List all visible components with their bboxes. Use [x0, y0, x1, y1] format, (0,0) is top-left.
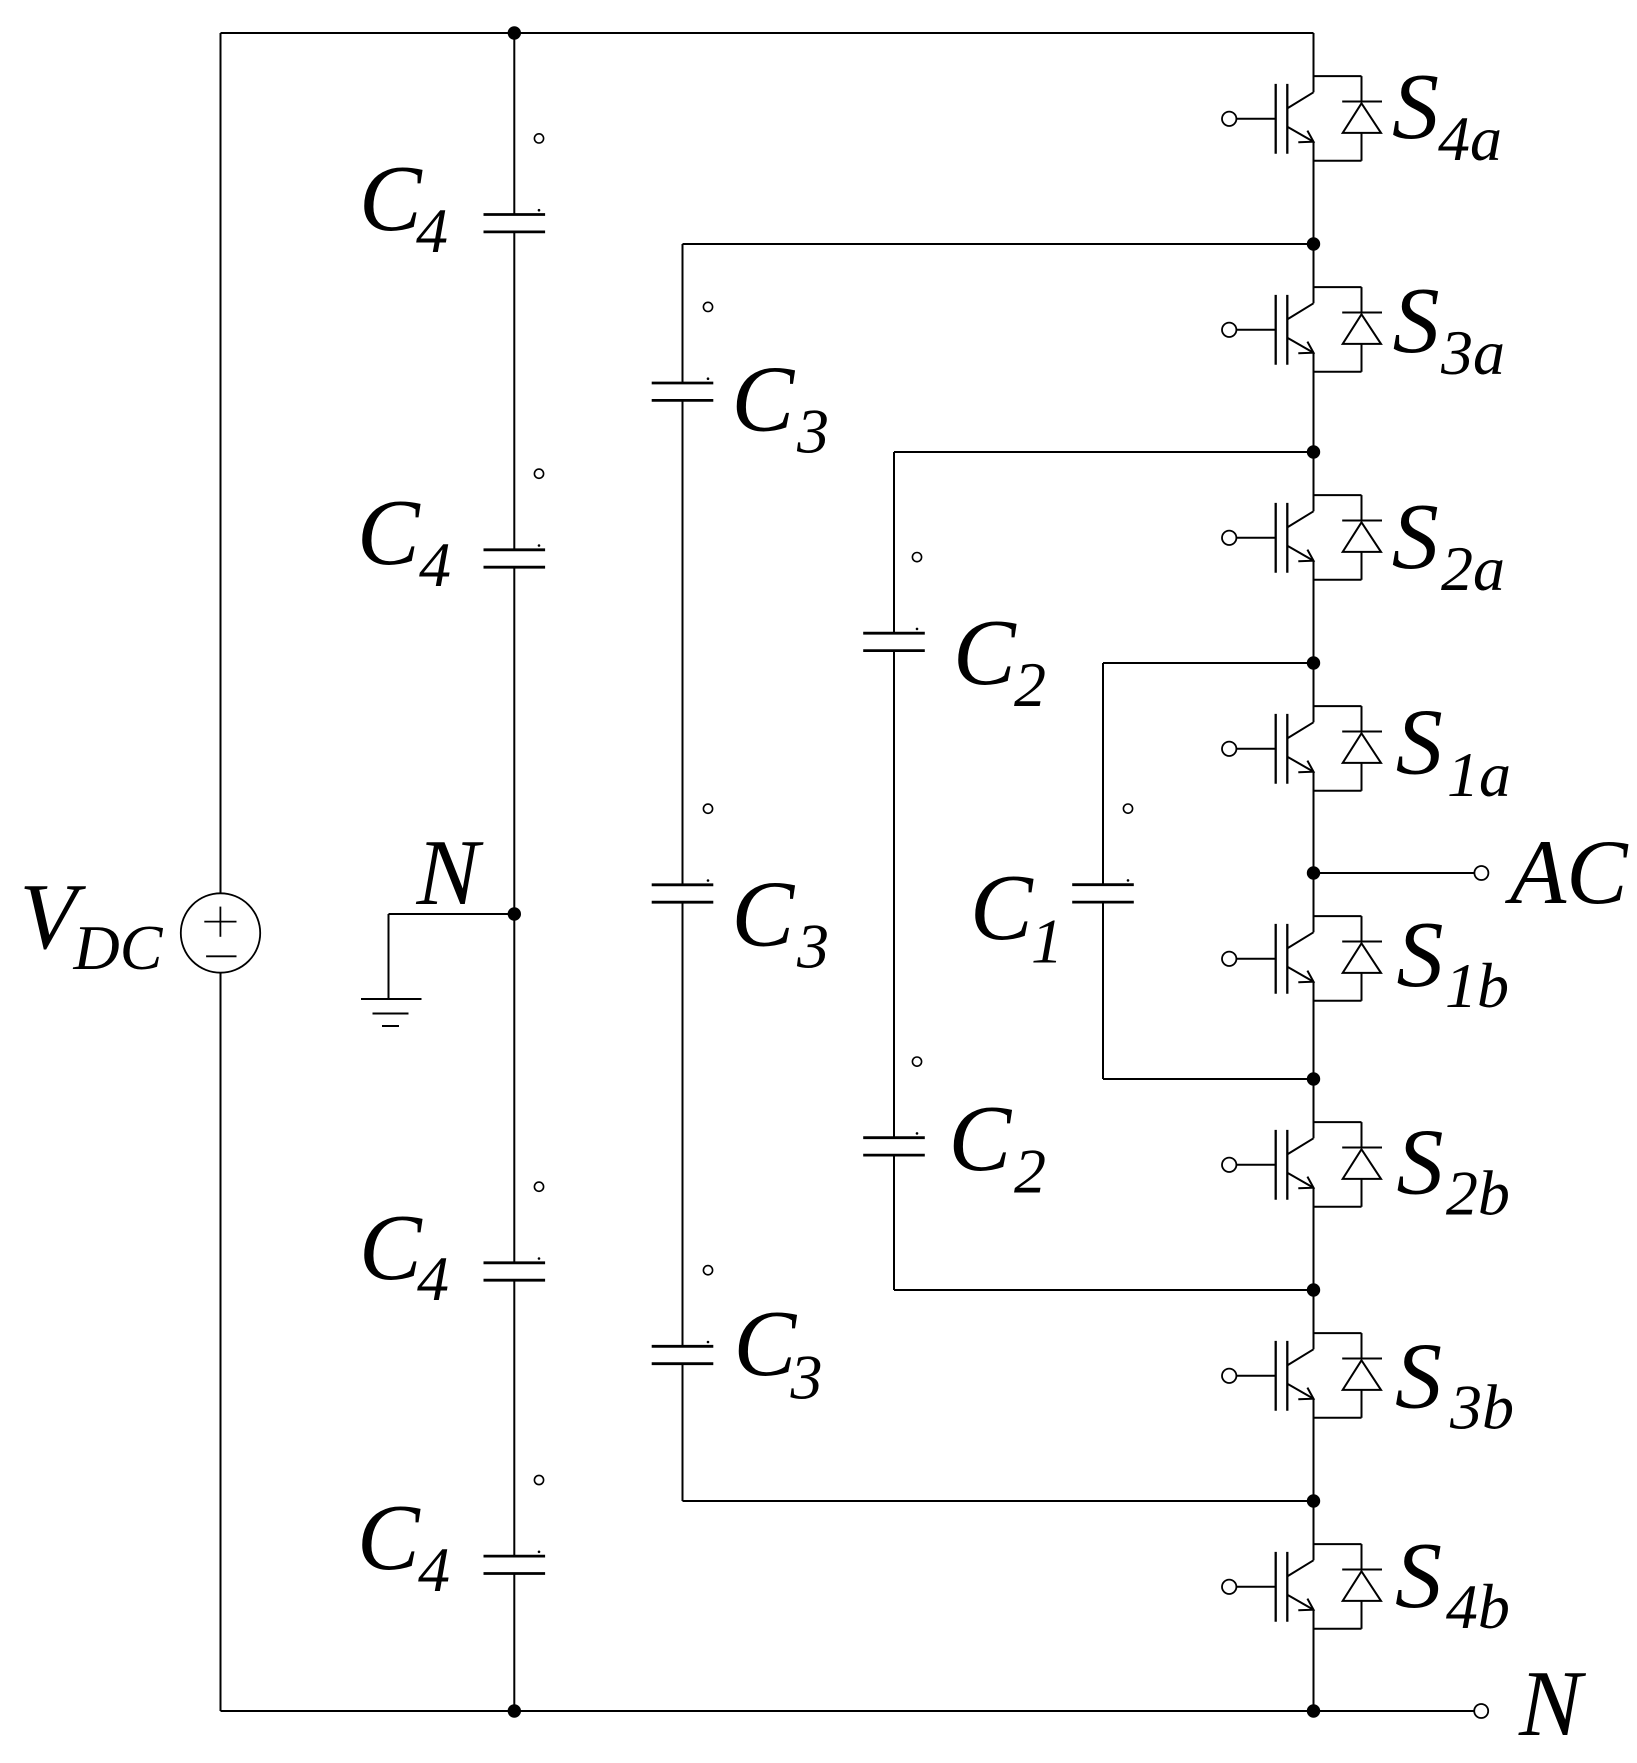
svg-text:3: 3: [790, 1342, 823, 1413]
wire top bus (VDC+ to S4a collector): [221, 32, 1314, 34]
capacitor C2 (bottom): [863, 1138, 925, 1155]
label C3 (top): [732, 348, 830, 467]
svg-text:2: 2: [1014, 649, 1046, 720]
svg-text:1b: 1b: [1445, 950, 1509, 1021]
wire node N branch: [389, 914, 515, 999]
label S4a: [1392, 55, 1502, 174]
svg-text:1a: 1a: [1447, 739, 1511, 810]
capacitor C3 (bottom): [652, 1346, 714, 1363]
label S1b: [1397, 903, 1510, 1021]
diode D2b (antiparallel of S2b): [1314, 1122, 1383, 1207]
svg-text:2: 2: [1014, 1136, 1046, 1207]
wire left rail upper (top bus to VDC+): [220, 33, 222, 893]
svg-text:3: 3: [796, 911, 829, 982]
svg-text:S: S: [1395, 1324, 1442, 1428]
label VDC: [20, 865, 164, 983]
capacitor C3 (middle): [652, 885, 714, 902]
wire C1 bus vertical: [1102, 663, 1104, 1079]
junction dot S2b-S3b / C2 bottom: [1307, 1283, 1320, 1296]
wire C3 bottom connect: [683, 1500, 1314, 1502]
label S3a: [1393, 269, 1505, 388]
capacitor C3 (top): [652, 383, 714, 400]
svg-text:4: 4: [416, 195, 448, 266]
wire C1 bottom connect: [1103, 1078, 1314, 1080]
junction dot S3b-S4b / C3 bottom: [1307, 1494, 1320, 1507]
label S1a: [1396, 690, 1511, 810]
svg-text:C: C: [734, 1292, 798, 1396]
svg-text:3: 3: [796, 396, 829, 467]
diode D3a (antiparallel of S3a): [1314, 287, 1383, 372]
svg-text:4: 4: [418, 1534, 450, 1605]
svg-text:N: N: [1518, 1652, 1587, 1756]
label C4 (third): [359, 1196, 449, 1314]
wire C1 top connect: [1103, 662, 1314, 664]
svg-text:C: C: [732, 348, 796, 452]
transistor S4b (IGBT): [1222, 1501, 1314, 1711]
label C4 (top): [359, 147, 448, 266]
svg-text:N: N: [416, 821, 485, 925]
svg-text:S: S: [1397, 903, 1444, 1007]
transistor S1a (IGBT): [1222, 663, 1314, 873]
svg-text:4: 4: [417, 1243, 449, 1314]
svg-text:2a: 2a: [1441, 533, 1505, 604]
svg-text:C: C: [359, 1196, 423, 1300]
svg-text:4b: 4b: [1446, 1571, 1510, 1642]
junction dot AC node: [1307, 866, 1320, 879]
diode D1a (antiparallel of S1a): [1314, 706, 1383, 791]
svg-text:S: S: [1392, 55, 1439, 159]
wire C4 bus vertical: [513, 33, 515, 1711]
svg-text:C: C: [357, 1486, 421, 1590]
voltage source VDC: [181, 893, 260, 972]
svg-text:S: S: [1396, 690, 1443, 794]
terminal N (open circle): [1474, 1704, 1488, 1718]
svg-text:C: C: [953, 601, 1017, 705]
label S2a: [1392, 485, 1505, 604]
capacitor C4 (bottom): [484, 1556, 546, 1573]
svg-text:2b: 2b: [1446, 1158, 1510, 1229]
label AC: [1504, 821, 1629, 923]
svg-text:C: C: [970, 856, 1034, 960]
diode D2a (antiparallel of S2a): [1314, 495, 1383, 580]
capacitor C2 (top): [863, 633, 925, 650]
wire C3 bus vertical: [682, 244, 684, 1501]
svg-text:3b: 3b: [1449, 1372, 1514, 1443]
transistor S3a (IGBT): [1222, 244, 1314, 452]
svg-text:1: 1: [1031, 906, 1063, 977]
wire C2 bottom connect: [894, 1289, 1314, 1291]
capacitor C4 (second): [484, 550, 546, 567]
junction dot bottom bus / C4: [508, 1704, 521, 1717]
junction dot S4a-S3a / C3 top: [1307, 237, 1320, 250]
svg-text:4a: 4a: [1438, 103, 1502, 174]
label C4 (second): [357, 481, 451, 600]
label C4 (bottom): [357, 1486, 450, 1605]
wire C3 top connect: [683, 243, 1314, 245]
junction dot S2a-S1a / C1 top: [1307, 656, 1320, 669]
svg-text:S: S: [1397, 1110, 1444, 1214]
label N (neutral, top): [416, 821, 485, 925]
svg-text:S: S: [1393, 269, 1440, 373]
capacitor C1: [1072, 885, 1134, 902]
label C1: [970, 856, 1063, 977]
svg-text:DC: DC: [73, 912, 164, 983]
transistor S3b (IGBT): [1222, 1290, 1314, 1501]
diode D4a (antiparallel of S4a): [1314, 76, 1383, 161]
svg-text:3a: 3a: [1440, 317, 1505, 388]
capacitor sense marks (small circles and dots): [534, 134, 1132, 1553]
transistor S4a (IGBT): [1222, 33, 1314, 244]
junction dot S1b-S2b / C1 bottom: [1307, 1072, 1320, 1085]
label S2b: [1397, 1110, 1510, 1228]
wire bottom bus (VDC- to N terminal): [221, 1710, 1475, 1712]
label S3b: [1395, 1324, 1514, 1442]
svg-text:S: S: [1395, 1524, 1442, 1628]
transistor S1b (IGBT): [1222, 873, 1314, 1079]
label C2 (top): [953, 601, 1046, 720]
label S4b: [1395, 1524, 1510, 1642]
svg-text:C: C: [732, 863, 796, 967]
label C3 (middle): [732, 863, 830, 982]
svg-text:C: C: [949, 1087, 1013, 1191]
label C2 (bottom): [949, 1087, 1047, 1207]
svg-text:4: 4: [419, 529, 451, 600]
wire C2 bus vertical: [893, 452, 895, 1290]
junction dot top bus / C4: [508, 26, 521, 39]
label N (bottom right): [1518, 1652, 1587, 1756]
wire C2 top connect: [894, 451, 1314, 453]
wire AC output: [1314, 872, 1475, 874]
svg-text:AC: AC: [1504, 821, 1629, 923]
junction dot bottom bus / N: [1307, 1704, 1320, 1717]
svg-text:C: C: [359, 147, 423, 251]
transistor S2a (IGBT): [1222, 452, 1314, 663]
diode D1b (antiparallel of S1b): [1314, 916, 1383, 1001]
diode D4b (antiparallel of S4b): [1314, 1544, 1383, 1629]
terminal AC (open circle): [1474, 866, 1488, 880]
label C3 (bottom): [734, 1292, 823, 1413]
ground symbol at node N: [361, 999, 422, 1026]
junction dot S3a-S2a / C2 top: [1307, 445, 1320, 458]
diode D3b (antiparallel of S3b): [1314, 1333, 1383, 1418]
junction dot node N: [508, 907, 521, 920]
svg-text:S: S: [1392, 485, 1439, 589]
capacitor C4 (third): [484, 1263, 546, 1280]
wire left rail lower (VDC- to bottom bus): [220, 973, 222, 1711]
svg-text:C: C: [357, 481, 421, 585]
transistor S2b (IGBT): [1222, 1079, 1314, 1290]
capacitor C4 (top): [484, 215, 546, 232]
